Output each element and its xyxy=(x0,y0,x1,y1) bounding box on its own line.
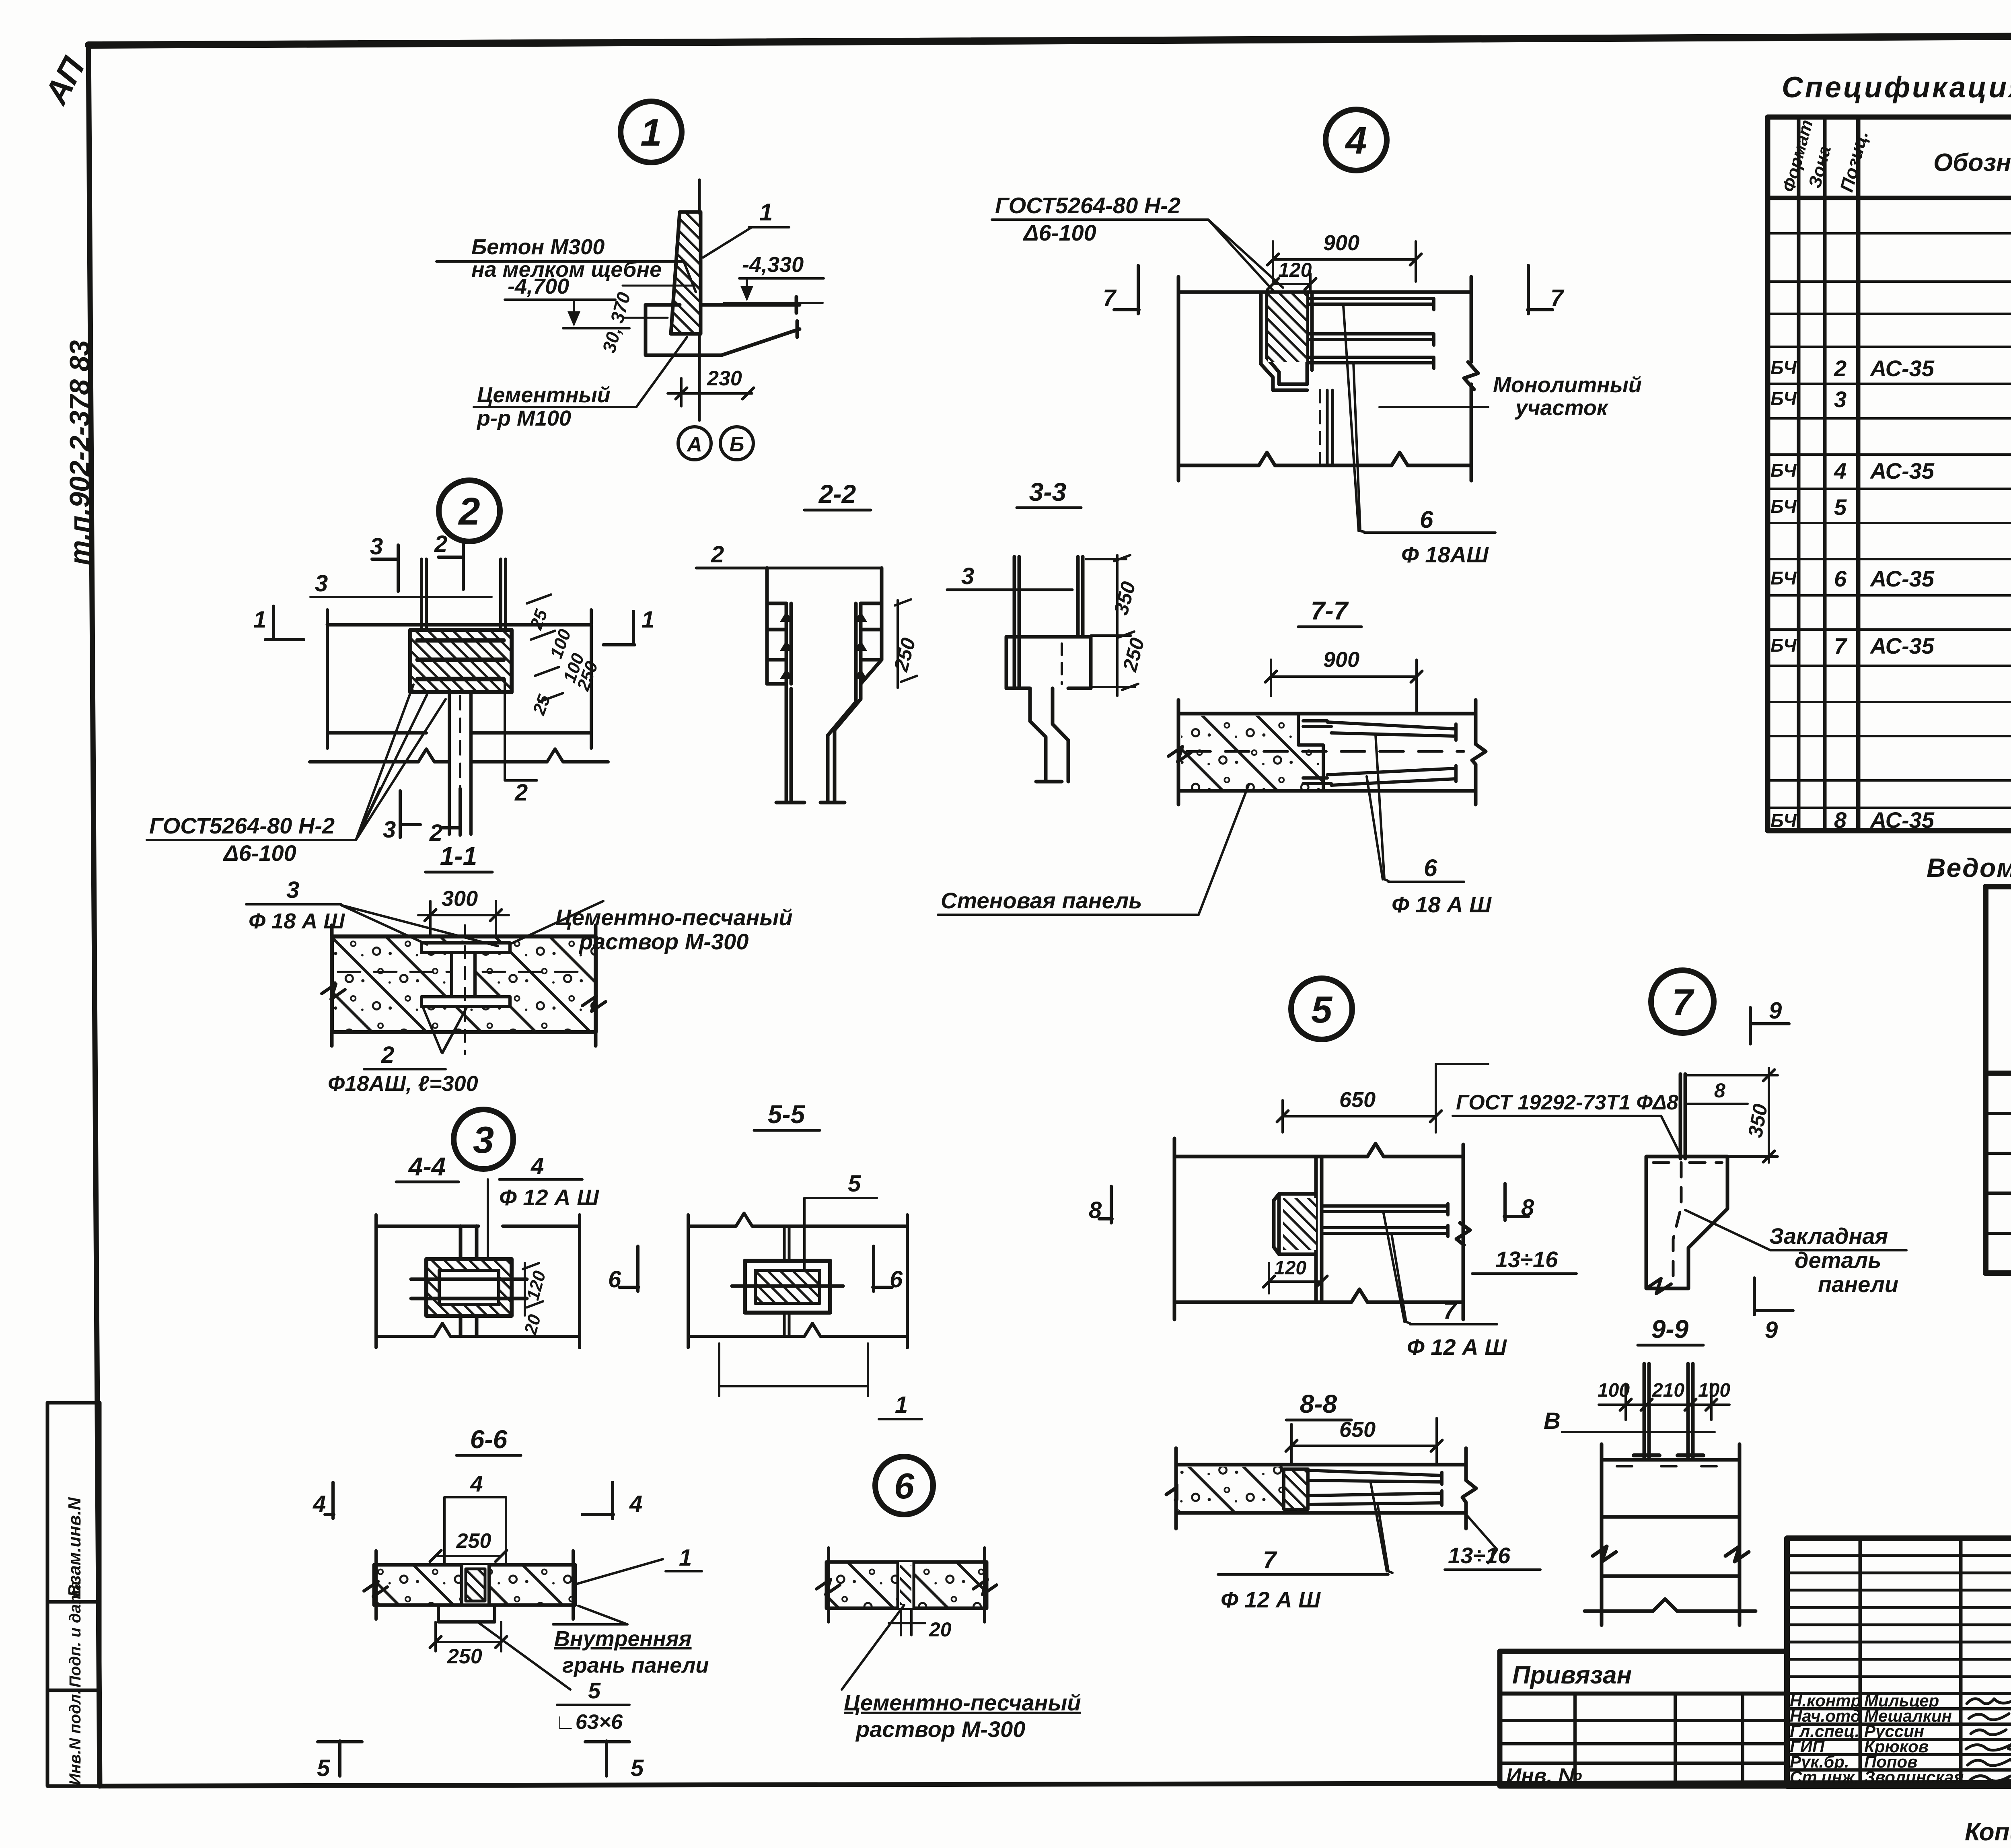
svg-text:Б: Б xyxy=(730,433,744,456)
concrete hatched part xyxy=(1181,716,1323,789)
svg-text:650: 650 xyxy=(1339,1088,1376,1112)
svg-text:5: 5 xyxy=(588,1678,601,1703)
svg-text:350: 350 xyxy=(1744,1102,1772,1139)
svg-text:АС-35: АС-35 xyxy=(1869,807,1935,833)
svg-text:Δ6-100: Δ6-100 xyxy=(223,840,296,866)
svg-text:Монолитный: Монолитный xyxy=(1493,373,1642,397)
svg-text:3: 3 xyxy=(961,563,974,589)
label Внутренняя грань панели xyxy=(553,1606,627,1624)
svg-text:Стеновая панель: Стеновая панель xyxy=(941,888,1142,913)
svg-text:Инв.N подл.: Инв.N подл. xyxy=(66,1690,84,1785)
svg-text:5: 5 xyxy=(1834,494,1847,520)
panel top view xyxy=(1585,1444,1756,1625)
svg-text:АС-35: АС-35 xyxy=(1869,566,1935,591)
svg-text:1: 1 xyxy=(642,607,654,633)
left margin stamp boxes xyxy=(47,1403,100,1786)
svg-text:2: 2 xyxy=(1834,356,1847,381)
svg-text:25: 25 xyxy=(529,692,554,718)
svg-text:3-3: 3-3 xyxy=(1029,477,1067,506)
svg-text:4: 4 xyxy=(313,1491,326,1517)
dim 350 right xyxy=(1687,1068,1778,1163)
svg-text:7: 7 xyxy=(1550,285,1565,311)
node circle 2 xyxy=(439,480,500,541)
section 5-5 drawing xyxy=(688,1213,907,1348)
slab lower lines with breaks xyxy=(310,610,608,762)
main title block xyxy=(1787,1538,2011,1786)
node 6 band xyxy=(827,1562,987,1608)
svg-text:раствор М-300: раствор М-300 xyxy=(855,1716,1025,1742)
dims 100 210 100 xyxy=(1598,1380,1730,1401)
svg-text:3: 3 xyxy=(315,570,328,597)
svg-text:5: 5 xyxy=(317,1755,330,1781)
slab outline node 1 xyxy=(646,297,800,355)
svg-text:8: 8 xyxy=(1714,1079,1725,1102)
svg-text:7: 7 xyxy=(1672,981,1694,1023)
embed block (hatched) xyxy=(410,630,512,692)
svg-text:3: 3 xyxy=(383,817,396,843)
embed + bars xyxy=(1284,1469,1308,1509)
band 6-6 xyxy=(374,1565,575,1605)
svg-text:Ф 12 А Ш: Ф 12 А Ш xyxy=(499,1185,599,1210)
svg-text:5-5: 5-5 xyxy=(768,1100,806,1129)
svg-text:4: 4 xyxy=(531,1153,544,1179)
label ГОСТ 5264-80 Н-2 xyxy=(995,193,1180,245)
svg-text:панели: панели xyxy=(1818,1272,1898,1297)
svg-text:Ф18АШ, ℓ=300: Ф18АШ, ℓ=300 xyxy=(328,1072,478,1096)
svg-text:900: 900 xyxy=(1323,648,1359,672)
embed bracket with step xyxy=(1261,292,1312,390)
label Бетон М300 xyxy=(471,235,662,282)
section 2-2 body xyxy=(767,568,882,803)
label Закладная деталь панели xyxy=(1685,1210,1770,1250)
grid bubble Б xyxy=(720,427,753,460)
leader to label xyxy=(842,1605,904,1690)
svg-text:Ф 12 А Ш: Ф 12 А Ш xyxy=(1221,1587,1321,1612)
svg-text:120: 120 xyxy=(1274,1257,1306,1279)
svg-text:участок: участок xyxy=(1514,396,1609,420)
svg-text:7-7: 7-7 xyxy=(1311,596,1349,625)
svg-text:БЧ: БЧ xyxy=(1770,357,1797,378)
svg-text:5: 5 xyxy=(848,1171,861,1197)
wall outline xyxy=(1174,1138,1470,1319)
svg-text:9-9: 9-9 xyxy=(1651,1315,1689,1344)
svg-text:120: 120 xyxy=(1278,259,1312,281)
leader 5 L63x6 xyxy=(479,1623,570,1690)
embedded T profile xyxy=(422,943,510,1006)
svg-text:8: 8 xyxy=(1834,807,1847,833)
panel verticals above slab xyxy=(422,559,506,630)
leader 7 Ф12АШ xyxy=(1384,1213,1410,1323)
svg-text:Цементный: Цементный xyxy=(477,383,611,407)
svg-text:Ф 12 А Ш: Ф 12 А Ш xyxy=(1407,1334,1507,1360)
svg-text:Спецификация элементов монта: Спецификация элементов монтажных узлов xyxy=(1782,71,2011,104)
bars xyxy=(1322,1204,1448,1237)
svg-text:1: 1 xyxy=(759,199,773,226)
joint gap xyxy=(898,1562,914,1608)
svg-text:Внутренняя: Внутренняя xyxy=(554,1627,692,1651)
wall band xyxy=(1178,700,1486,805)
svg-text:1: 1 xyxy=(895,1392,908,1418)
leader 6 Ф18АШ xyxy=(1367,735,1388,881)
svg-text:Обозначение: Обозначение xyxy=(1933,149,2011,177)
svg-text:2-2: 2-2 xyxy=(818,479,856,508)
svg-text:АС-35: АС-35 xyxy=(1869,633,1935,659)
svg-text:7: 7 xyxy=(1263,1546,1277,1573)
svg-text:350: 350 xyxy=(1110,579,1140,617)
svg-text:3: 3 xyxy=(473,1119,494,1161)
walls outline xyxy=(1178,277,1478,481)
svg-text:3: 3 xyxy=(1834,387,1847,412)
svg-text:Ведомость расхода стали на эле: Ведомость расхода стали на элемент, кг xyxy=(1927,853,2011,883)
label Цементный р-р М100 xyxy=(476,383,611,430)
svg-text:∟63×6: ∟63×6 xyxy=(555,1710,623,1734)
svg-text:Подп. и дата: Подп. и дата xyxy=(66,1581,84,1687)
svg-text:6-6: 6-6 xyxy=(470,1425,508,1454)
signatures xyxy=(1966,1699,2011,1781)
svg-text:Закладная: Закладная xyxy=(1769,1223,1888,1249)
svg-text:4: 4 xyxy=(1834,458,1847,484)
svg-text:25: 25 xyxy=(526,607,551,632)
svg-text:4: 4 xyxy=(1345,119,1367,162)
outer box xyxy=(1768,117,2011,831)
svg-text:р-р М100: р-р М100 xyxy=(476,406,571,430)
svg-text:2: 2 xyxy=(434,531,447,557)
svg-text:-4,330: -4,330 xyxy=(742,253,804,277)
svg-text:6: 6 xyxy=(894,1466,915,1506)
svg-text:БЧ: БЧ xyxy=(1770,635,1797,656)
svg-text:5: 5 xyxy=(631,1755,644,1781)
svg-text:БЧ: БЧ xyxy=(1770,810,1797,831)
svg-text:6: 6 xyxy=(1834,566,1847,591)
leader 7 Ф12АШ xyxy=(1371,1483,1392,1573)
row lines xyxy=(1768,233,2011,808)
two anchors xyxy=(1644,1364,1693,1458)
svg-text:АС-35: АС-35 xyxy=(1869,356,1935,381)
svg-text:250: 250 xyxy=(889,636,920,674)
node circle 7 xyxy=(1651,970,1714,1033)
section 4-4 drawing xyxy=(376,1215,580,1348)
svg-text:АС-35: АС-35 xyxy=(1869,458,1935,484)
svg-text:А: А xyxy=(686,433,702,456)
svg-text:грань панели: грань панели xyxy=(562,1653,709,1677)
svg-text:Позиц.: Позиц. xyxy=(1836,128,1872,194)
svg-text:раствор М-300: раствор М-300 xyxy=(578,929,748,954)
svg-text:210: 210 xyxy=(1652,1380,1684,1401)
svg-text:ГОСТ5264-80 Н-2: ГОСТ5264-80 Н-2 xyxy=(995,193,1180,218)
svg-text:АП: АП xyxy=(37,51,93,111)
svg-text:20: 20 xyxy=(929,1618,952,1641)
node circle 1 xyxy=(621,101,682,163)
svg-text:6: 6 xyxy=(1424,854,1437,881)
concrete band xyxy=(332,936,596,1032)
anchor rod xyxy=(1680,1074,1685,1159)
svg-text:230: 230 xyxy=(707,367,742,390)
left margin rotated labels xyxy=(37,51,95,565)
label Цементно-песчаный раствор М-300 xyxy=(555,905,793,954)
svg-text:250: 250 xyxy=(447,1645,482,1668)
svg-text:Инв. №: Инв. № xyxy=(1506,1764,1582,1788)
node circle 3 xyxy=(454,1109,513,1169)
dashed panel line below xyxy=(1319,390,1321,465)
svg-text:900: 900 xyxy=(1323,231,1359,255)
vertical lines xyxy=(1797,117,1801,831)
svg-text:1: 1 xyxy=(253,607,266,633)
leaders from label to block xyxy=(356,685,446,840)
svg-text:650: 650 xyxy=(1339,1418,1376,1442)
svg-text:2: 2 xyxy=(711,541,724,568)
svg-text:-4,700: -4,700 xyxy=(508,274,569,298)
svg-text:1-1: 1-1 xyxy=(440,842,477,870)
svg-text:Δ6-100: Δ6-100 xyxy=(1023,220,1096,245)
svg-text:Привязан: Привязан xyxy=(1512,1661,1632,1689)
svg-text:3: 3 xyxy=(286,877,299,903)
panel edge strip (hatched) xyxy=(671,212,701,334)
svg-text:100: 100 xyxy=(1698,1380,1730,1401)
svg-text:БЧ: БЧ xyxy=(1770,568,1797,589)
band xyxy=(1166,1448,1476,1529)
svg-text:120: 120 xyxy=(523,1268,549,1302)
node circle 4 xyxy=(1326,109,1387,171)
svg-text:ГОСТ 19292-73Т1 ФΔ8: ГОСТ 19292-73Т1 ФΔ8 xyxy=(1456,1091,1678,1114)
square tube xyxy=(426,1259,512,1316)
svg-text:9: 9 xyxy=(1769,998,1782,1024)
panel edge and bracket xyxy=(1274,1157,1322,1302)
small rows top-left grid xyxy=(1787,1556,2011,1677)
axis line A-Б xyxy=(698,180,701,420)
slab top line xyxy=(327,623,591,627)
header bottom xyxy=(1768,196,2011,200)
svg-text:Цементно-песчаный: Цементно-песчаный xyxy=(555,905,793,930)
svg-text:5: 5 xyxy=(1311,988,1333,1031)
svg-text:13÷16: 13÷16 xyxy=(1448,1543,1511,1568)
svg-text:8-8: 8-8 xyxy=(1300,1389,1337,1418)
leader 2 Ф18АШ bottom xyxy=(423,1008,467,1053)
table body text xyxy=(1770,208,2011,833)
label Монолитный участок xyxy=(1493,373,1642,420)
svg-text:БЧ: БЧ xyxy=(1770,460,1797,481)
svg-text:БЧ: БЧ xyxy=(1770,388,1797,409)
svg-text:ГОСТ5264-80 Н-2: ГОСТ5264-80 Н-2 xyxy=(149,813,335,838)
panel below block xyxy=(449,692,471,834)
svg-text:т.п.902-2-378 83: т.п.902-2-378 83 xyxy=(64,340,95,565)
embed plate and bars xyxy=(1303,721,1456,785)
label ГОСТ 5264-80 Н-2 xyxy=(149,813,335,866)
joint detail center xyxy=(462,1565,489,1605)
svg-text:250: 250 xyxy=(1118,636,1149,674)
svg-text:3: 3 xyxy=(370,533,383,560)
svg-text:13÷16: 13÷16 xyxy=(1495,1247,1558,1272)
right rotated dims 25 100 100 250 xyxy=(526,607,602,718)
svg-text:2: 2 xyxy=(381,1042,394,1068)
node circle 6 xyxy=(875,1457,933,1515)
svg-text:БЧ: БЧ xyxy=(1770,496,1797,517)
svg-text:2: 2 xyxy=(514,780,528,806)
name rows xyxy=(1787,1694,2011,1770)
grid bubble А xyxy=(678,427,711,460)
svg-text:В: В xyxy=(1544,1408,1561,1434)
svg-text:4: 4 xyxy=(470,1471,483,1496)
svg-text:Бетон М300: Бетон М300 xyxy=(471,235,605,259)
svg-text:300: 300 xyxy=(442,887,478,911)
bottom dim of 5-5 xyxy=(719,1344,868,1396)
svg-text:1: 1 xyxy=(679,1545,692,1571)
svg-text:7: 7 xyxy=(1834,633,1848,659)
dim 250 below xyxy=(436,1622,501,1651)
dim 20 xyxy=(889,1609,925,1635)
svg-text:Ст.инж.: Ст.инж. xyxy=(1790,1768,1859,1786)
svg-text:Ф 18 А Ш: Ф 18 А Ш xyxy=(249,909,345,933)
svg-text:Ф 18 А Ш: Ф 18 А Ш xyxy=(1392,892,1492,917)
center dashed axis xyxy=(1186,750,1464,753)
svg-text:250: 250 xyxy=(456,1529,491,1553)
node circle 5 xyxy=(1291,978,1352,1039)
svg-text:9: 9 xyxy=(1765,1317,1778,1343)
svg-text:1: 1 xyxy=(640,111,662,154)
svg-text:7: 7 xyxy=(1443,1297,1458,1324)
svg-text:Цементно-песчаный: Цементно-песчаный xyxy=(844,1690,1081,1715)
section 3-3 body xyxy=(1006,557,1091,782)
svg-text:2: 2 xyxy=(458,490,480,533)
привязан box xyxy=(1500,1651,1787,1786)
rebar strips in block xyxy=(417,640,504,679)
svg-text:4-4: 4-4 xyxy=(408,1152,446,1181)
panel pentagon xyxy=(1646,1157,1727,1288)
svg-text:4: 4 xyxy=(629,1491,642,1517)
svg-text:Ф 18АШ: Ф 18АШ xyxy=(1401,542,1489,567)
leader 1 right xyxy=(576,1559,663,1584)
rebars 3 horizontal xyxy=(1309,298,1434,368)
label 13÷16 xyxy=(1467,1516,1497,1563)
svg-text:6: 6 xyxy=(1420,506,1433,533)
leader 6 Ф18АШ xyxy=(1343,306,1364,532)
svg-text:Копировал: М: Копировал: М xyxy=(1965,1818,2011,1846)
svg-text:7: 7 xyxy=(1103,285,1117,311)
svg-text:Зволинская: Зволинская xyxy=(1864,1768,1964,1786)
header texts xyxy=(1779,117,2011,194)
